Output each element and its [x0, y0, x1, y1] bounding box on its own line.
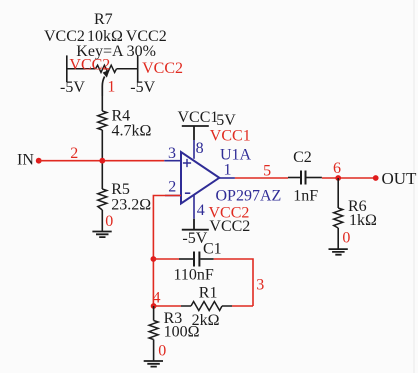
- VCC1 name black: [178, 109, 219, 126]
- R5 value 23.2Ω: [111, 197, 151, 214]
- resistor R6: [334, 208, 343, 228]
- svg-text:1kΩ: 1kΩ: [349, 212, 377, 229]
- wire node4 to R1: [154, 305, 181, 307]
- svg-text:VCC2: VCC2: [142, 60, 183, 77]
- R6 label: [348, 198, 367, 215]
- wire C2 to OUT (net 6): [322, 177, 376, 179]
- svg-text:R1: R1: [199, 285, 218, 302]
- pin 2 number: [168, 179, 176, 196]
- op-amp U1A triangle: [181, 152, 219, 204]
- C1 value 110nF: [174, 267, 214, 284]
- op-amp minus sign: [185, 192, 190, 194]
- pin 2 stub: [165, 195, 181, 197]
- net number 1 (wiper): [107, 79, 115, 96]
- svg-text:0: 0: [158, 343, 166, 360]
- resistor R4: [98, 111, 107, 130]
- pin 3 stub: [164, 160, 181, 162]
- R3 value 100Ω: [164, 324, 200, 341]
- power bar VCC2 right (-5V): [137, 55, 139, 82]
- pin 1 stub: [219, 177, 235, 179]
- R4 label: [112, 108, 131, 125]
- pot key label: [76, 43, 156, 60]
- svg-text:110nF: 110nF: [174, 267, 214, 284]
- junction node 6: [335, 175, 341, 181]
- svg-text:4.7kΩ: 4.7kΩ: [112, 123, 152, 140]
- power VCC1 bar: [182, 126, 209, 140]
- pin 4 number: [197, 202, 205, 219]
- power symbol name VCC2 (left, black): [44, 28, 85, 45]
- net label VCC2 red (pin4): [209, 205, 250, 222]
- svg-text:6: 6: [333, 160, 341, 177]
- C2 label: [293, 149, 312, 166]
- net number 5: [263, 163, 271, 180]
- svg-text:5: 5: [263, 163, 271, 180]
- OUT node: [373, 169, 417, 188]
- svg-text:4: 4: [197, 202, 205, 219]
- VCC1 value 5V: [216, 112, 236, 129]
- ground under R3: [144, 361, 163, 367]
- svg-text:VCC1: VCC1: [210, 128, 251, 145]
- pin 8 number: [196, 140, 204, 157]
- U1A label: [220, 147, 252, 164]
- faint scan edge line at right: [413, 0, 415, 373]
- svg-text:VCC2: VCC2: [69, 57, 110, 74]
- wire R3 to ground: [153, 340, 155, 362]
- pin 3 number: [168, 145, 176, 162]
- OP297AZ label: [216, 188, 282, 205]
- net number 0 under R6: [342, 230, 350, 247]
- C1 label: [203, 241, 222, 258]
- svg-text:8: 8: [196, 140, 204, 157]
- IN node: [17, 152, 42, 169]
- svg-text:OUT: OUT: [382, 169, 418, 188]
- net label VCC1 red: [210, 128, 251, 145]
- svg-text:1nF: 1nF: [293, 188, 318, 205]
- power symbol name VCC2 (right, black): [126, 28, 167, 45]
- power value -5V (pin4): [182, 230, 207, 247]
- pin 4 stub: [193, 195, 195, 219]
- junction IN/R4/R5: [99, 158, 105, 164]
- VCC2 name black (pin4): [209, 218, 250, 235]
- wire pin2 corner (net to feedback): [153, 196, 181, 307]
- svg-text:5V: 5V: [216, 112, 236, 129]
- wire C1 to right corner (net 3): [214, 259, 253, 306]
- R1 value 2kΩ: [192, 312, 220, 329]
- resistor R3: [149, 321, 158, 340]
- wire junction to C1: [153, 258, 179, 260]
- net number 3: [256, 277, 264, 294]
- svg-text:2: 2: [70, 145, 78, 162]
- svg-text:VCC2: VCC2: [209, 218, 250, 235]
- potentiometer R7 body: [67, 65, 138, 72]
- power value -5V left: [60, 79, 85, 96]
- power value -5V right: [130, 79, 155, 96]
- wire junction to R5: [101, 161, 103, 189]
- svg-text:U1A: U1A: [220, 147, 252, 164]
- svg-text:3: 3: [256, 277, 264, 294]
- svg-text:C2: C2: [293, 149, 312, 166]
- potentiometer R7 label: [94, 11, 113, 28]
- R6 value 1kΩ: [349, 212, 377, 229]
- svg-text:-5V: -5V: [130, 79, 155, 96]
- ground under R5: [92, 232, 111, 238]
- svg-text:OP297AZ: OP297AZ: [216, 188, 282, 205]
- svg-text:1: 1: [224, 162, 232, 179]
- svg-text:-5V: -5V: [60, 79, 85, 96]
- svg-text:100Ω: 100Ω: [164, 324, 200, 341]
- ground under R6: [329, 249, 348, 255]
- svg-text:R5: R5: [111, 181, 130, 198]
- net number 0 under R3: [158, 343, 166, 360]
- net number 4: [153, 290, 161, 307]
- wire node4 down to R3: [153, 306, 155, 321]
- svg-text:1: 1: [107, 79, 115, 96]
- svg-text:2: 2: [168, 179, 176, 196]
- svg-text:0: 0: [105, 213, 113, 230]
- junction at C1 row: [151, 256, 157, 262]
- svg-text:0: 0: [342, 230, 350, 247]
- svg-text:R7: R7: [94, 11, 113, 28]
- wire from wiper to R4: [101, 96, 103, 111]
- R5 label: [111, 181, 130, 198]
- resistor R5: [98, 189, 107, 210]
- R1 label: [199, 285, 218, 302]
- capacitor C1: [179, 252, 214, 267]
- potentiometer wiper arrow: [102, 70, 109, 96]
- pin 8 stub: [193, 140, 195, 159]
- net label VCC2 red left: [69, 57, 110, 74]
- C2 value 1nF: [293, 188, 318, 205]
- junction node 4: [151, 303, 157, 309]
- R3 label: [164, 310, 183, 327]
- power VCC2 bar under pin 4: [182, 219, 209, 230]
- wire R6 to ground: [337, 228, 339, 249]
- svg-text:IN: IN: [17, 152, 34, 169]
- wire IN to pin 3 (net 2): [39, 160, 165, 162]
- svg-text:3: 3: [168, 145, 176, 162]
- wire R5 to ground: [101, 210, 103, 232]
- value label 10kΩ: [87, 28, 123, 45]
- svg-text:C1: C1: [203, 241, 222, 258]
- op-amp plus sign: [183, 159, 191, 167]
- net label VCC2 red right: [142, 60, 183, 77]
- wire pin1 to C2 (net 5): [235, 177, 288, 179]
- net number 2: [70, 145, 78, 162]
- net number 6: [333, 160, 341, 177]
- power bar VCC2 left (-5V): [66, 55, 68, 82]
- capacitor C2: [288, 171, 322, 185]
- resistor R1: [181, 302, 232, 311]
- wire R1 to right corner: [232, 305, 253, 307]
- R4 value 4.7kΩ: [112, 123, 152, 140]
- wire R4 to junction: [101, 130, 103, 161]
- wire node6 to R6: [337, 178, 339, 208]
- svg-text:23.2Ω: 23.2Ω: [111, 197, 151, 214]
- svg-text:VCC1: VCC1: [178, 109, 219, 126]
- net number 0 under R5: [105, 213, 113, 230]
- pin 1 number: [224, 162, 232, 179]
